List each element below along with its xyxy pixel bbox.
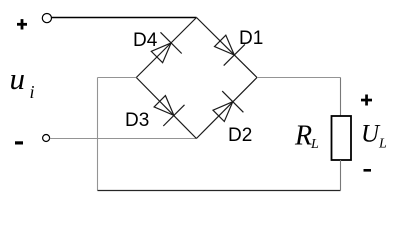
resistor RL: [332, 116, 352, 160]
input terminal bottom circle: [43, 135, 50, 142]
wire: top terminal to bridge top node: [52, 17, 197, 19]
wire: bridge right node to load branch: [257, 77, 341, 79]
wire: resistor bottom to bottom rail: [340, 160, 342, 191]
wire: bottom return rail: [98, 190, 341, 192]
svg-text:i: i: [30, 82, 35, 102]
svg-text:D3: D3: [125, 110, 149, 131]
wire: bottom terminal to bridge bottom node: [50, 138, 197, 140]
svg-text:D4: D4: [133, 30, 158, 51]
svg-text:L: L: [378, 137, 387, 152]
svg-text:U: U: [361, 121, 381, 148]
wire: bridge edge bottom-to-right: [196, 78, 257, 139]
wire: bridge edge top-to-right: [197, 18, 258, 78]
label + (input plus): [17, 19, 27, 29]
diode D3: [149, 91, 184, 126]
diode D4: [146, 32, 181, 67]
svg-text:R: R: [294, 121, 312, 152]
diode D1: [210, 30, 245, 65]
wire: load branch down to resistor top: [340, 78, 342, 117]
wire: bridge edge left-to-top: [136, 18, 196, 78]
svg-text:D1: D1: [239, 28, 263, 49]
svg-text:u: u: [10, 61, 26, 96]
wire: bridge left node to left bus: [98, 77, 137, 79]
diode D2: [208, 91, 243, 126]
wire: bridge edge left-to-bottom: [136, 78, 196, 139]
svg-text:D2: D2: [228, 125, 252, 146]
label - (input minus): [15, 141, 23, 144]
wire: left bus vertical down: [97, 78, 99, 191]
label - (output minus): [364, 169, 372, 172]
input terminal top circle: [42, 14, 51, 23]
label + (output plus): [361, 95, 372, 106]
svg-text:L: L: [310, 137, 319, 152]
